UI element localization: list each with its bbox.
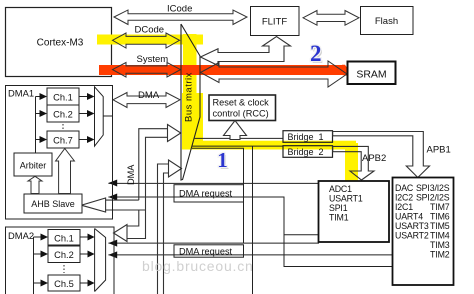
svg-text:I2C2: I2C2 bbox=[395, 193, 413, 203]
svg-text:DMA1: DMA1 bbox=[8, 88, 34, 99]
arrow System (double, transparent over red) bbox=[113, 63, 181, 78]
svg-text:AHB Slave: AHB Slave bbox=[31, 199, 75, 209]
wire V3 APB down to bottom bbox=[252, 147, 254, 294]
box DMA2 Ch.5 bbox=[48, 275, 80, 291]
svg-text:Ch.1: Ch.1 bbox=[54, 234, 74, 244]
box Arbiter bbox=[14, 153, 52, 176]
box DMA1 Ch.1 bbox=[47, 88, 79, 105]
arrow ICode (double) bbox=[114, 10, 247, 25]
svg-text:DCode: DCode bbox=[135, 25, 165, 36]
svg-text:blog.bruceou.cn: blog.bruceou.cn bbox=[142, 258, 254, 274]
dots between Ch.2 and Ch.7 bbox=[62, 124, 64, 130]
highlight band bus-matrix vertical (yellow B) bbox=[183, 34, 197, 94]
op: DMA request box 1 bbox=[174, 185, 244, 202]
svg-text:TIM4: TIM4 bbox=[430, 231, 450, 241]
mux trapezoid DMA2 bbox=[95, 229, 106, 292]
box DMA2 Ch.1 bbox=[48, 230, 80, 246]
DMA request box 2 bbox=[174, 245, 244, 257]
svg-text:DMA2: DMA2 bbox=[8, 230, 34, 241]
svg-text:UART4: UART4 bbox=[395, 212, 423, 222]
svg-text:DMA request: DMA request bbox=[179, 246, 233, 256]
box RCC bbox=[209, 95, 276, 121]
svg-text:Bus matrix: Bus matrix bbox=[184, 72, 195, 122]
svg-text:USART2: USART2 bbox=[395, 231, 429, 241]
box ADC1 peripherals bbox=[319, 181, 390, 242]
highlight band System to SRAM (red) bbox=[99, 65, 353, 77]
box AHB Slave bbox=[24, 194, 82, 213]
svg-text:Reset & clock: Reset & clock bbox=[213, 98, 270, 108]
box DMA1 outer bbox=[6, 86, 113, 220]
svg-text:TIM3: TIM3 bbox=[430, 240, 450, 250]
svg-text:FLITF: FLITF bbox=[262, 17, 288, 28]
svg-text:I2C1: I2C1 bbox=[395, 202, 413, 212]
arrow DCode (double, transparent over yellow) bbox=[113, 33, 180, 48]
highlight band to bridges (yellow C) bbox=[183, 141, 356, 150]
highlight band APB2 down (yellow D) bbox=[345, 143, 358, 182]
svg-text:ICode: ICode bbox=[167, 4, 192, 15]
bus matrix shape bbox=[181, 24, 200, 180]
wire busmatrix to Bridge 2 bbox=[192, 145, 283, 147]
arrow into AHB slave branch bbox=[106, 199, 139, 201]
svg-text:SPI3/I2S: SPI3/I2S bbox=[416, 183, 450, 193]
svg-text:USART3: USART3 bbox=[395, 221, 429, 231]
box FLITF bbox=[251, 7, 300, 36]
highlight band DCode (yellow A) bbox=[97, 35, 203, 45]
wire jog B to ADC1 bbox=[284, 234, 319, 236]
wires channels to mux bbox=[79, 96, 87, 98]
box APB1 peripherals bbox=[393, 178, 454, 286]
wire busmatrix to SRAM (hollow double arrow, transparent over red) bbox=[201, 61, 348, 87]
box DMA2 outer bbox=[6, 227, 115, 294]
svg-text:DMA: DMA bbox=[138, 90, 160, 101]
svg-text:APB2: APB2 bbox=[362, 153, 386, 164]
arrow DMA1 to busmatrix (double) bbox=[113, 93, 180, 108]
wires to mux DMA2 bbox=[80, 236, 88, 238]
svg-text:Ch.7: Ch.7 bbox=[53, 136, 73, 146]
wire W1 from busmatrix down (hollow) bbox=[81, 125, 181, 294]
box Cortex-M3 bbox=[6, 8, 112, 77]
arrow AHB slave up to Ch.7 bbox=[56, 149, 75, 194]
box Bridge 1 (transparent fill over yellow) bbox=[283, 131, 333, 143]
svg-text:Ch.2: Ch.2 bbox=[53, 110, 73, 120]
wire Bridge1 to APB1 (hollow L with down arrow) bbox=[333, 132, 430, 178]
svg-text:TIM5: TIM5 bbox=[430, 221, 450, 231]
svg-text:APB1: APB1 bbox=[427, 145, 451, 156]
arrowhead row2 B bbox=[108, 251, 117, 258]
label 1 (blue) bbox=[217, 41, 323, 174]
arrowhead row2 A bbox=[108, 240, 117, 247]
svg-text:2: 2 bbox=[310, 41, 322, 66]
wire DMA request row1 A bbox=[108, 182, 318, 184]
svg-text:System: System bbox=[137, 54, 169, 65]
svg-text:USART1: USART1 bbox=[329, 194, 363, 204]
box DMA1 Ch.7 bbox=[47, 131, 79, 148]
svg-text:Bridge 1: Bridge 1 bbox=[288, 132, 324, 142]
svg-text:Ch.2: Ch.2 bbox=[54, 250, 74, 260]
wire feed line DMA1 channels bbox=[35, 97, 37, 154]
wire W2 from busmatrix down to bottom (hollow) bbox=[164, 173, 169, 294]
svg-text:Flash: Flash bbox=[375, 16, 398, 27]
arrow into busmatrix E1 bbox=[127, 137, 168, 238]
svg-text:ADC1: ADC1 bbox=[329, 184, 352, 194]
wire DMA request row2 B bbox=[108, 254, 392, 256]
arrowheads into channels bbox=[40, 93, 48, 100]
box SRAM bbox=[348, 62, 396, 85]
box DMA1 Ch.2 bbox=[47, 105, 79, 122]
arrow AHB slave to arbiter bbox=[28, 176, 42, 193]
svg-text:Cortex-M3: Cortex-M3 bbox=[37, 38, 84, 49]
wire busmatrix to Bridge 1 bbox=[195, 137, 283, 139]
svg-text:control (RCC): control (RCC) bbox=[213, 109, 269, 119]
svg-text:TIM2: TIM2 bbox=[430, 250, 450, 260]
arrowhead row1 B bbox=[108, 194, 117, 201]
arrow into RCC from yellow bus bbox=[224, 121, 247, 140]
svg-text:TIM1: TIM1 bbox=[329, 213, 349, 223]
svg-text:DMA request: DMA request bbox=[179, 188, 233, 198]
svg-text:Ch.5: Ch.5 bbox=[54, 279, 74, 289]
svg-text:Ch.1: Ch.1 bbox=[53, 93, 73, 103]
box Flash bbox=[361, 7, 414, 35]
svg-text:TIM7: TIM7 bbox=[430, 202, 450, 212]
wire Bridge2 to APB2 (hollow L with down arrow) bbox=[333, 146, 374, 180]
arrow FLITF-Flash (double) bbox=[303, 11, 359, 26]
arrow into DMA2 branch bbox=[114, 225, 128, 242]
svg-text:Bridge 2: Bridge 2 bbox=[288, 147, 324, 157]
svg-text:TIM6: TIM6 bbox=[430, 212, 450, 222]
wire V2 APB down to DMA row bbox=[192, 148, 244, 243]
svg-text:SPI1: SPI1 bbox=[329, 203, 348, 213]
wire DMA request row2 A bbox=[108, 240, 318, 243]
svg-text:Arbiter: Arbiter bbox=[20, 161, 47, 171]
wire feed line DMA2 bbox=[33, 237, 35, 294]
svg-text:SPI2/I2S: SPI2/I2S bbox=[416, 193, 450, 203]
svg-text:SRAM: SRAM bbox=[356, 69, 386, 81]
wire DMA request row1 B with jog to ADC1 and APB1 box bbox=[108, 197, 392, 267]
mux trapezoid DMA1 bbox=[95, 87, 104, 146]
dots bbox=[63, 265, 65, 273]
wire FLITF to busmatrix (hollow L, double arrow) bbox=[201, 37, 291, 66]
box DMA2 Ch.2 bbox=[48, 246, 80, 263]
arrowhead row1 A bbox=[108, 180, 117, 187]
box Bridge 2 bbox=[283, 146, 333, 158]
svg-text:DMA: DMA bbox=[126, 164, 136, 185]
svg-text:1: 1 bbox=[217, 148, 228, 172]
svg-text:DAC: DAC bbox=[395, 183, 414, 193]
